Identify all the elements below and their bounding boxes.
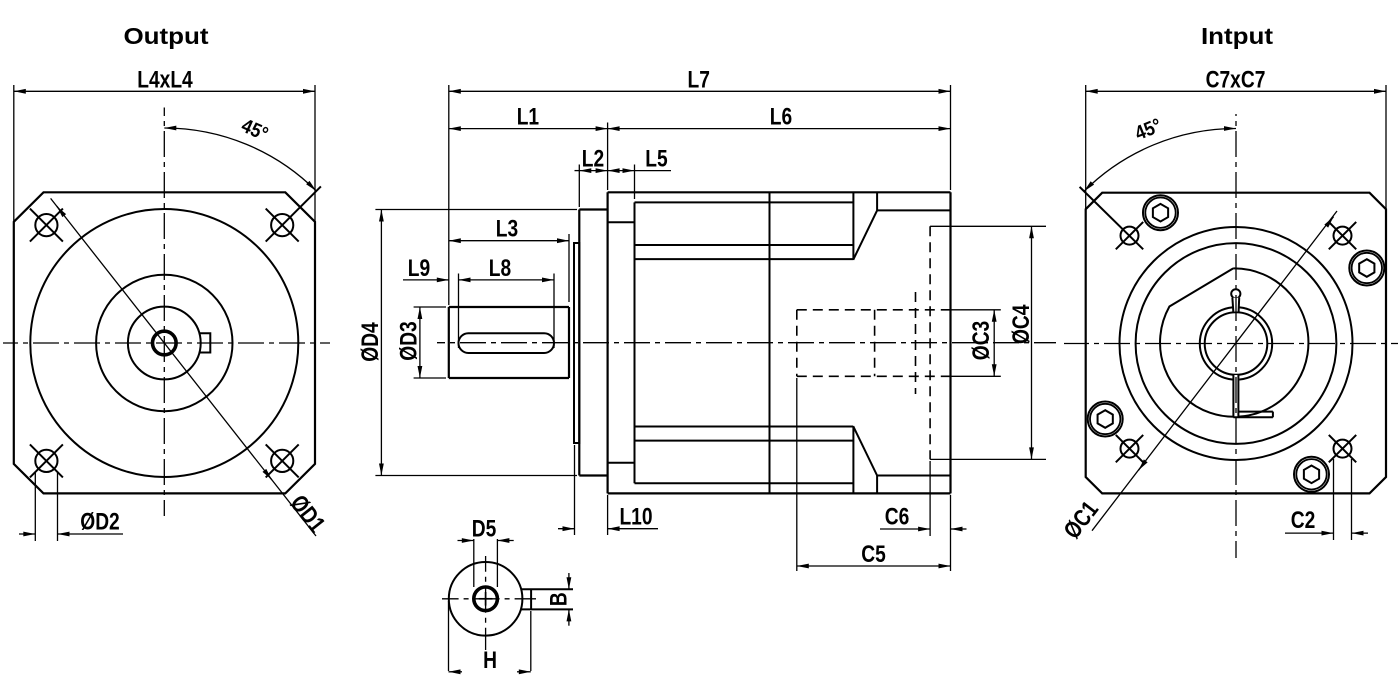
cross mark top-right hole xyxy=(266,209,299,242)
hex screw top-right xyxy=(1349,251,1384,286)
svg-text:ØD4: ØD4 xyxy=(356,322,384,361)
cross marks top-left hole xyxy=(30,209,63,242)
dimension L2 xyxy=(578,165,580,208)
dimension D1 bolt circle diagonal xyxy=(51,198,316,536)
svg-text:C2: C2 xyxy=(1291,506,1316,534)
keyhole circle on clamp xyxy=(1231,289,1240,298)
rear step vertical bottom xyxy=(876,476,878,494)
housing band front face xyxy=(634,202,636,483)
svg-text:L1: L1 xyxy=(517,103,539,131)
flange back face / body front edge xyxy=(606,192,608,493)
flange pilot circle D1 area (big circle) xyxy=(30,209,298,477)
svg-text:L9: L9 xyxy=(408,254,430,282)
input end face xyxy=(949,192,951,493)
clamp collar with flat xyxy=(1160,268,1308,416)
hidden bore step xyxy=(874,310,876,377)
dimension C3 xyxy=(951,309,1001,311)
hidden input bore top xyxy=(797,309,951,311)
svg-text:ØD3: ØD3 xyxy=(394,321,422,360)
dimension L9 xyxy=(458,274,460,349)
output shaft top edge xyxy=(449,306,569,308)
hidden pilot recess xyxy=(929,226,931,459)
input hole bottom-right xyxy=(1334,440,1352,458)
bolt hole top-right xyxy=(271,214,293,236)
dimension C7xC7 xyxy=(1085,85,1087,210)
hex screw bottom-right xyxy=(1294,457,1329,492)
rear section top edge xyxy=(877,209,950,211)
shaft boss circle xyxy=(128,307,201,380)
key bottom edge xyxy=(521,608,573,610)
output shaft bold circle xyxy=(153,331,177,355)
input hole top-left xyxy=(1121,227,1139,245)
right horizontal centerline xyxy=(1064,343,1398,345)
output flange plate top edge xyxy=(579,208,607,210)
cross marks bottom-right xyxy=(1329,435,1356,462)
dimension 45 degrees arc left xyxy=(164,128,316,191)
keyhole slot right xyxy=(1238,298,1241,312)
rear section bottom edge xyxy=(877,475,950,477)
svg-text:C6: C6 xyxy=(885,502,910,530)
bolt hole top-left xyxy=(35,214,57,236)
input hub outer circle xyxy=(1200,307,1272,379)
keyway notch on boss circle xyxy=(200,333,210,352)
key end face xyxy=(530,589,532,609)
dimension L4xL4 xyxy=(13,85,15,222)
bearing housing circle xyxy=(96,275,232,411)
horizontal centerline left view xyxy=(3,342,330,344)
svg-text:C7xC7: C7xC7 xyxy=(1206,65,1266,93)
dimension C5 xyxy=(796,378,798,571)
body bottom edge xyxy=(608,492,951,494)
svg-text:ØC4: ØC4 xyxy=(1007,305,1035,344)
input hub inner circle xyxy=(1205,312,1268,375)
dimension 45 degrees arc right xyxy=(1084,128,1236,191)
svg-text:L7: L7 xyxy=(687,65,709,93)
svg-text:L6: L6 xyxy=(770,103,792,131)
housing band top lower edge xyxy=(635,258,854,260)
dimension C6 xyxy=(929,461,931,536)
right vertical centerline xyxy=(1235,114,1237,558)
keyhole slot white gap xyxy=(1233,298,1239,312)
dimension C2 xyxy=(1333,459,1335,540)
bolt hole bottom-right xyxy=(271,450,293,472)
svg-text:B: B xyxy=(544,592,572,606)
clamp step top xyxy=(1238,411,1273,413)
output shaft right face xyxy=(568,307,570,378)
tapped hole cross horizontal xyxy=(479,598,493,600)
cross marks top-right xyxy=(1329,222,1356,249)
neck top edge xyxy=(608,221,635,223)
key top edge xyxy=(521,588,573,590)
clamp slot left xyxy=(1232,375,1234,418)
detail vertical centerline xyxy=(485,556,487,650)
hidden clamp cavity xyxy=(915,292,917,394)
taper top xyxy=(853,210,877,259)
input flange square body xyxy=(1086,193,1386,494)
dimension H xyxy=(448,601,450,671)
middle horizontal centerline xyxy=(437,342,1056,344)
clamp slot white gap xyxy=(1233,375,1240,417)
neck bottom edge xyxy=(608,462,635,464)
diagonal through top-right bolt hole to 45 arc xyxy=(266,186,321,241)
pilot recess bottom edge xyxy=(930,458,1046,460)
svg-text:D5: D5 xyxy=(472,514,497,542)
housing band right face top xyxy=(852,192,854,259)
dimension D2 bottom-left hole xyxy=(34,472,36,541)
svg-text:L3: L3 xyxy=(496,214,518,242)
svg-text:H: H xyxy=(483,646,497,674)
output flange plate front face xyxy=(578,210,580,476)
hex screw top-left xyxy=(1143,195,1178,230)
housing band top edge xyxy=(635,201,854,203)
cross marks bottom-right hole xyxy=(266,444,299,477)
pilot boss ring xyxy=(574,243,579,443)
dimension C1 bolt circle diagonal xyxy=(1092,211,1337,531)
cross marks bottom-left xyxy=(1116,435,1143,462)
hidden bore end xyxy=(796,310,798,377)
clamp slot right xyxy=(1237,375,1239,418)
input boss circle xyxy=(1136,243,1337,444)
dimension L10 xyxy=(574,445,576,535)
dimension L3 xyxy=(568,234,570,302)
cross marks bottom-left hole xyxy=(30,444,63,477)
detail horizontal centerline xyxy=(442,598,536,600)
pilot recess top edge xyxy=(930,225,1046,227)
tapped hole cross vertical xyxy=(485,592,487,606)
svg-text:L8: L8 xyxy=(489,254,511,282)
housing band right face bottom xyxy=(852,426,854,493)
body top edge xyxy=(608,191,951,193)
output flange plate bottom edge xyxy=(579,474,607,476)
input hole bottom-left xyxy=(1121,440,1139,458)
housing band top inner line xyxy=(635,244,854,246)
housing band bottom edge xyxy=(635,482,854,484)
dimension D3 xyxy=(414,306,446,308)
shaft keyway slot xyxy=(459,333,555,353)
dimension D4 xyxy=(375,209,577,211)
center tapped hole bold circle xyxy=(474,587,498,611)
svg-text:L4xL4: L4xL4 xyxy=(137,65,192,93)
dimension L6 xyxy=(608,128,951,130)
svg-text:L10: L10 xyxy=(619,502,652,530)
svg-text:ØD2: ØD2 xyxy=(80,507,119,535)
svg-text:C5: C5 xyxy=(861,540,886,568)
dimension C4 xyxy=(1031,226,1033,459)
svg-text:L5: L5 xyxy=(645,144,667,172)
keyhole slot left xyxy=(1231,298,1234,312)
shaft section circle xyxy=(449,562,523,636)
output flange square body xyxy=(14,192,315,493)
input hole top-right xyxy=(1334,227,1352,245)
diagonal through top-left hole to 45 arc xyxy=(1080,187,1144,249)
dimension D5 xyxy=(473,539,475,587)
dimension L8 xyxy=(553,274,555,349)
clamp step side xyxy=(1272,412,1274,418)
rear step vertical top xyxy=(876,192,878,210)
svg-text:L2: L2 xyxy=(582,144,604,172)
vertical centerline left view xyxy=(163,108,165,517)
dimension L7 xyxy=(448,85,450,305)
clamp slot bottom xyxy=(1233,416,1273,418)
output shaft end face xyxy=(448,307,450,378)
dimension B xyxy=(568,573,570,589)
input pilot recess circle xyxy=(1120,227,1353,460)
output shaft bottom edge xyxy=(449,377,569,379)
svg-text:Intput: Intput xyxy=(1201,24,1273,49)
dimension L5 xyxy=(634,165,636,200)
housing seam line xyxy=(769,192,771,493)
hidden input bore bottom xyxy=(797,375,951,377)
taper bottom xyxy=(853,426,877,475)
bolt hole bottom-left xyxy=(35,450,57,472)
svg-text:ØC3: ØC3 xyxy=(967,321,995,360)
svg-text:Output: Output xyxy=(123,24,208,49)
housing band bottom inner line xyxy=(635,440,854,442)
housing band bottom upper edge xyxy=(635,426,854,428)
dimension L1 xyxy=(607,123,609,191)
cross mark top-left xyxy=(1116,222,1143,249)
hex screw bottom-left xyxy=(1088,402,1123,437)
